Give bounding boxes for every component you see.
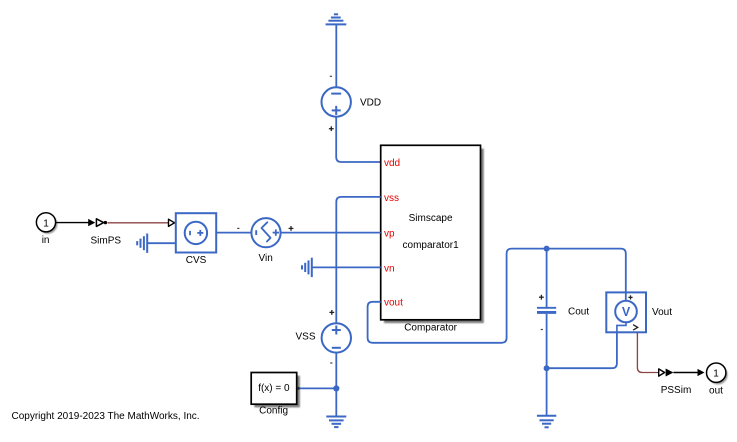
config block shadow — [254, 376, 300, 408]
svg-text:Comparator: Comparator — [404, 322, 457, 333]
voltage source VDD — [322, 87, 382, 116]
wire Vin to vp port — [280, 232, 380, 234]
svg-text:Simscape: Simscape — [409, 213, 453, 224]
svg-text:in: in — [42, 235, 50, 246]
svg-text:Config: Config — [259, 406, 288, 417]
capacitor Cout — [537, 306, 589, 317]
polarity marker + (Vout block) — [628, 295, 632, 299]
svg-text:Vin: Vin — [259, 253, 273, 264]
polarity marker - (Cout bottom) — [541, 329, 543, 331]
wire in port to SimPS (signal) — [56, 222, 89, 224]
svg-text:vn: vn — [384, 263, 395, 274]
solver configuration block Config — [251, 373, 297, 417]
svg-text:SimPS: SimPS — [91, 235, 122, 246]
wire GND2 to CVS negative — [147, 242, 176, 244]
wire VDD positive to vdd port — [336, 117, 381, 162]
svg-text:vss: vss — [384, 193, 399, 204]
output port block out — [707, 363, 728, 396]
svg-text:vdd: vdd — [384, 158, 400, 169]
converter SimPS (Simulink-PS) — [91, 219, 122, 247]
wire GND3 to vn port — [312, 266, 381, 268]
polarity marker - (Vin left) — [237, 227, 239, 229]
voltage source VSS — [295, 323, 351, 352]
wire node to GND5 — [546, 368, 548, 415]
wire Cout to bottom node — [546, 314, 548, 368]
svg-text:VDD: VDD — [360, 97, 381, 108]
svg-text:Vout: Vout — [652, 307, 672, 318]
svg-text:vp: vp — [384, 228, 395, 239]
arrowhead into out port — [698, 369, 705, 376]
open arrowhead at CVS input — [169, 219, 175, 226]
wire Vout output to PSSim (physical signal) — [637, 332, 658, 372]
wire Config to junction node — [300, 387, 337, 389]
svg-text:vout: vout — [384, 298, 403, 309]
input port block in — [36, 213, 57, 247]
svg-text:Copyright 2019-2023 The MathWo: Copyright 2019-2023 The MathWorks, Inc. — [12, 411, 200, 422]
voltage sensor Vout — [606, 292, 672, 332]
svg-text:1: 1 — [713, 369, 719, 380]
junction node GND net (cap bottom) — [544, 365, 550, 371]
arrowhead into SimPS — [88, 219, 95, 226]
port nub Config — [297, 387, 300, 390]
polarity marker + (Cout top) — [539, 295, 544, 300]
polarity marker + (VSS top) — [329, 310, 334, 315]
wire CVS output to Vin — [216, 232, 251, 234]
wire PSSim to out port (signal) — [673, 372, 698, 374]
svg-text:Cout: Cout — [568, 306, 589, 317]
voltage source Vin — [251, 218, 280, 264]
svg-text:PSSim: PSSim — [661, 385, 692, 396]
ground GND2 (CVS reference, rotated left) — [137, 234, 147, 253]
port nub CVS input — [175, 222, 177, 224]
junction node VOUT (cap top) — [544, 246, 550, 252]
ground GND4 (bottom center) — [326, 417, 346, 428]
wire VSS negative to node — [335, 352, 337, 388]
ground GND5 (bottom right) — [537, 416, 556, 428]
svg-text:1: 1 — [43, 218, 49, 229]
converter PSSim (PS-Simulink) — [659, 369, 692, 396]
svg-text:VSS: VSS — [295, 332, 315, 343]
polarity marker + (Vin right) — [289, 226, 294, 231]
svg-text:f(x) = 0: f(x) = 0 — [258, 383, 290, 394]
svg-text:CVS: CVS — [186, 255, 207, 266]
ground GND3 (vn reference, rotated left) — [302, 258, 312, 277]
svg-text:V: V — [622, 305, 631, 319]
polarity marker - (VDD top) — [330, 75, 332, 77]
comparator block shadow — [384, 149, 484, 324]
polarity marker + (VDD bottom) — [329, 126, 334, 131]
wire Vout negative to GND node — [547, 332, 617, 368]
polarity marker - (VSS bottom) — [330, 362, 332, 364]
svg-text:comparator1: comparator1 — [403, 240, 460, 251]
wire SimPS to CVS (physical signal) — [108, 222, 169, 224]
ground GND1 (top electrical reference) — [326, 14, 347, 24]
wire vout port to Vout block (net VOUT) — [368, 249, 626, 343]
subsystem block Comparator (Simscape comparator1) — [381, 145, 481, 319]
svg-text:out: out — [709, 385, 723, 396]
controlled voltage source CVS — [176, 213, 216, 266]
wire node to GND4 — [335, 388, 337, 416]
junction node VSS/Config — [333, 385, 339, 391]
wire vss port to VSS rail — [336, 197, 380, 324]
wire VOUT node to Cout — [546, 249, 548, 307]
wire GND1 to VDD negative terminal — [335, 24, 337, 87]
